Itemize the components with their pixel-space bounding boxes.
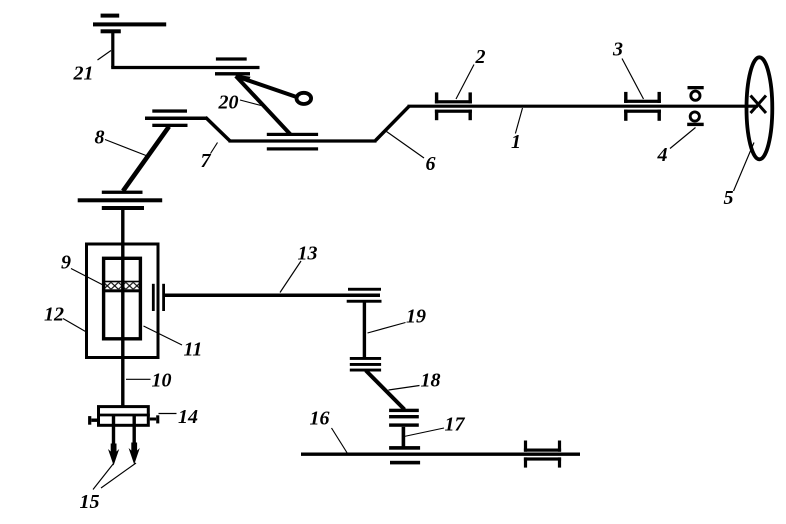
gear cluster 17: bar 1 <box>389 409 419 412</box>
shaft 7 horizontal stub at gear 8 <box>145 116 207 120</box>
arrow 15 left head <box>108 444 119 466</box>
clutch on shaft 16: top right bar <box>558 441 561 452</box>
clutch on shaft 16: bottom horizontal bar <box>524 457 561 460</box>
arrow 15 right stem <box>132 415 135 448</box>
gear 20 upper bar <box>216 57 247 60</box>
gear block on shaft 7: upper bar <box>267 133 318 136</box>
gear cluster at shaft 19 bottom: bar 1 <box>350 357 381 360</box>
svg-text:4: 4 <box>657 144 668 166</box>
gear cluster 17: bar 2 <box>389 415 419 418</box>
vertical shaft 10 <box>121 210 124 406</box>
leader line for 17 <box>404 428 444 437</box>
coupling at housing right: left bar <box>152 284 155 311</box>
svg-text:15: 15 <box>80 491 100 513</box>
gear on shaft 10 top: long middle bar <box>78 198 163 202</box>
clutch 2: top horizontal bar <box>435 100 472 103</box>
inclined shaft 8 <box>123 127 169 192</box>
shift lever rod to handle <box>239 77 298 97</box>
ram 14 left pin stub <box>91 419 98 422</box>
leader line for 14 <box>159 413 177 415</box>
bearing 4: bottom circle <box>690 112 699 121</box>
svg-text:12: 12 <box>44 304 64 326</box>
gear cluster at shaft 19 bottom: bar 2 <box>350 363 381 366</box>
shaft 6 right diagonal <box>376 106 410 140</box>
svg-text:21: 21 <box>73 63 94 85</box>
handwheel 5 ellipse <box>747 57 773 159</box>
gear on shaft 10 top: upper bar <box>102 191 143 194</box>
clutch 2: top left bar <box>435 92 438 103</box>
worm element 9 top edge <box>102 281 142 283</box>
arrow 15 left stem <box>112 415 115 449</box>
leader line for 18 <box>389 386 420 391</box>
main shaft 1 line <box>408 105 759 108</box>
ram 14 outer rectangle <box>99 407 149 426</box>
svg-text:5: 5 <box>724 187 734 209</box>
clutch 3: top left bar <box>624 92 627 103</box>
shift lever arrowhead at gear 20 <box>233 74 251 82</box>
vertical stub of gear 17 <box>402 427 406 447</box>
leader line for 5 <box>734 143 755 192</box>
handwheel 5 cross mark <box>751 96 767 114</box>
leader line for 19 <box>368 323 406 334</box>
shaft 7 left diagonal <box>206 117 231 141</box>
svg-text:6: 6 <box>426 153 436 175</box>
clutch 2: bottom left bar <box>435 110 438 121</box>
ram 14 mid horizontal line <box>97 414 150 417</box>
leader line for 4 <box>670 128 696 149</box>
link from gear 20 down to gear block 7 <box>236 76 291 135</box>
svg-text:8: 8 <box>95 127 105 149</box>
svg-text:14: 14 <box>178 406 198 428</box>
inner frame 11 <box>104 258 141 339</box>
support gear bars at shaft 21 top: long middle bar <box>93 22 166 26</box>
clutch 3: top right bar <box>658 92 661 103</box>
shaft 21 vertical segment <box>111 33 114 68</box>
svg-text:17: 17 <box>445 414 466 436</box>
arrow 15 right head <box>129 443 140 465</box>
housing box 12 (outer) <box>87 244 159 358</box>
svg-text:18: 18 <box>421 370 441 392</box>
gear bar above shaft 16 <box>389 446 420 450</box>
ram 14 left pin bar <box>88 416 91 425</box>
leader line for 15 left <box>93 464 114 490</box>
clutch 2: top right bar <box>469 92 472 103</box>
handle knob <box>297 93 312 104</box>
svg-text:11: 11 <box>184 339 203 361</box>
svg-text:3: 3 <box>612 39 623 61</box>
svg-text:10: 10 <box>152 370 172 392</box>
support gear bars at shaft 21 top: small top bar <box>101 14 120 18</box>
leader line for 16 <box>332 428 348 454</box>
leader line for 2 <box>456 65 474 100</box>
svg-text:9: 9 <box>61 252 71 274</box>
leader line for 8 <box>105 140 146 156</box>
leader line for 1 <box>515 108 522 134</box>
worm element 9 bottom edge <box>102 289 142 292</box>
leader line for 11 <box>144 326 183 345</box>
gear cluster 17: bar 3 <box>389 423 419 426</box>
horizontal shaft 13 <box>164 294 380 298</box>
worm element 9 hatched band <box>104 282 141 289</box>
svg-text:2: 2 <box>475 46 486 68</box>
clutch 3: bottom right bar <box>658 110 661 121</box>
leader line for 20 <box>240 100 261 106</box>
leader line for 6 <box>387 132 425 159</box>
svg-text:16: 16 <box>310 408 330 430</box>
clutch 3: top horizontal bar <box>624 100 661 103</box>
clutch 3: bottom horizontal bar <box>624 110 661 113</box>
support gear bars at shaft 21 top: small lower bar <box>101 29 121 33</box>
gear at shaft 13 end: upper bar <box>348 288 381 291</box>
leader line for 3 <box>622 59 644 100</box>
gear block on shaft 7: lower bar <box>267 147 318 150</box>
leader line for 12 <box>63 319 86 332</box>
horizontal shaft 16 <box>301 453 580 456</box>
gear 20 lower bar <box>215 72 250 75</box>
clutch on shaft 16: top left bar <box>524 441 527 452</box>
leader tick for 10 <box>126 378 151 380</box>
ram 14 right pin bar <box>156 415 159 423</box>
inclined shaft 18 <box>366 371 405 410</box>
gear 8 upper bevel: top bar <box>152 109 187 112</box>
bearing 4: bottom outer bar <box>687 123 704 126</box>
leader line for 13 <box>280 261 301 293</box>
vertical shaft 19 <box>363 303 366 358</box>
coupling at housing right: right bar <box>162 284 165 311</box>
bearing 4: top outer bar <box>688 86 704 89</box>
ram 14 right pin stub <box>150 418 156 421</box>
clutch 2: bottom horizontal bar <box>435 110 472 113</box>
svg-text:7: 7 <box>201 150 212 172</box>
clutch on shaft 16: bottom right bar <box>558 457 561 467</box>
shaft 7 horizontal line <box>229 139 377 142</box>
clutch 2: bottom right bar <box>469 110 472 121</box>
leader line for 7 <box>211 143 218 154</box>
svg-text:20: 20 <box>218 91 239 113</box>
leader line for 15 right <box>101 463 136 488</box>
gear on shaft 10 top: lower bar <box>102 206 144 210</box>
leader line for 9 <box>71 269 104 286</box>
bearing 4: top circle <box>691 91 700 100</box>
clutch 3: bottom left bar <box>624 110 627 121</box>
shaft 21 horizontal segment <box>111 66 259 69</box>
gear 8 upper bevel: bottom bar <box>152 124 187 127</box>
svg-text:1: 1 <box>511 131 521 153</box>
leader line for 21 <box>98 51 112 61</box>
gear at shaft 13 end: lower bar <box>347 300 382 303</box>
gear cluster at shaft 19 bottom: bar 3 <box>350 369 381 372</box>
svg-text:19: 19 <box>406 305 426 327</box>
gear bar below shaft 16 <box>390 461 420 465</box>
clutch on shaft 16: bottom left bar <box>524 457 527 467</box>
clutch on shaft 16: top horizontal bar <box>524 449 561 452</box>
